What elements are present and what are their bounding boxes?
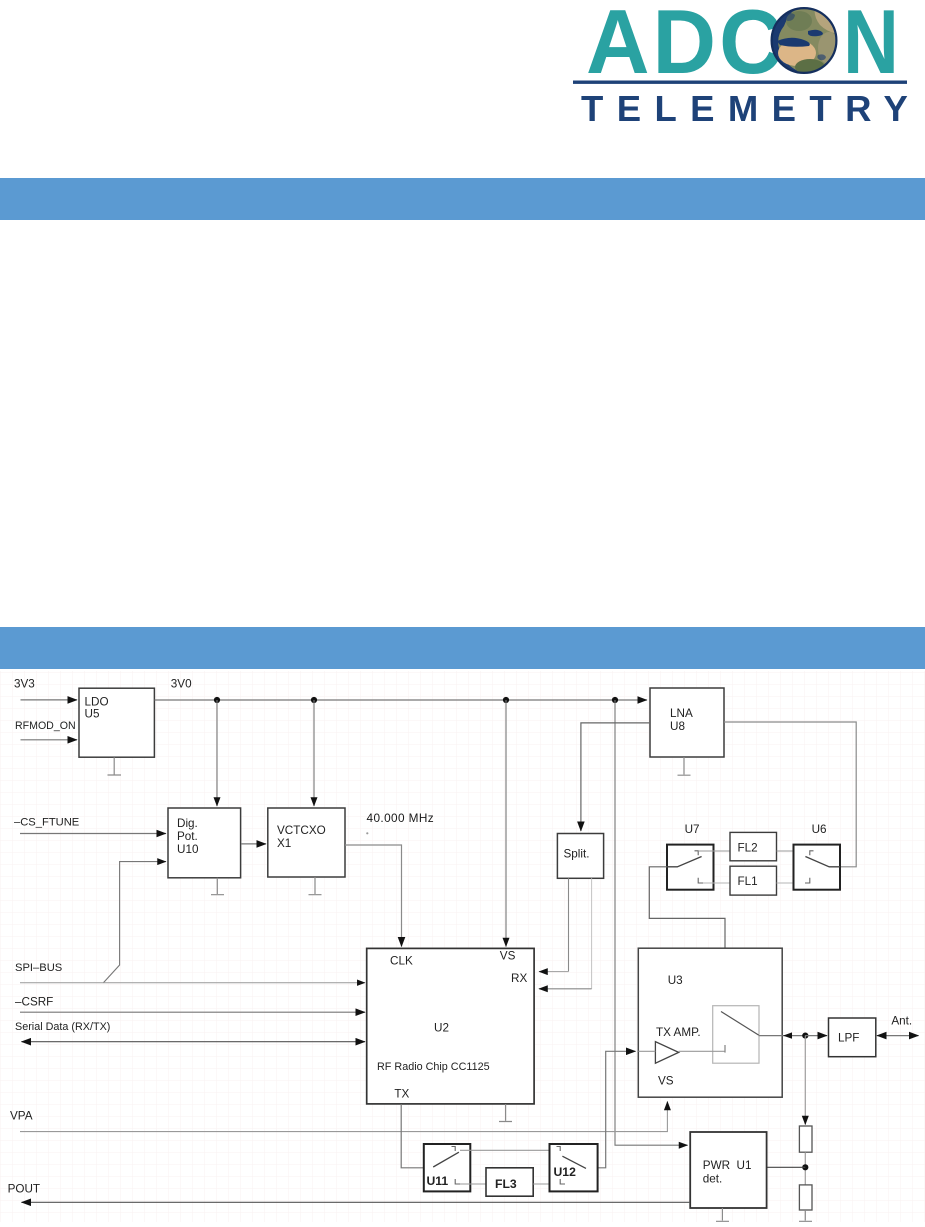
svg-text:FL3: FL3 — [495, 1177, 517, 1191]
svg-text:LPF: LPF — [838, 1032, 859, 1045]
svg-text:U1: U1 — [737, 1159, 752, 1172]
wire CSRF into U2 — [20, 1011, 365, 1013]
wire R1 to R2 — [804, 1152, 806, 1185]
resistor R2 — [799, 1185, 812, 1210]
filter LPF box — [829, 1018, 876, 1057]
crystal X1 box — [268, 808, 345, 877]
wire CS_FTUNE into U10 — [20, 833, 166, 835]
splitter box — [557, 834, 603, 879]
ground under X1 — [309, 877, 322, 895]
ground under LNA — [678, 757, 691, 775]
svg-text:SPI–BUS: SPI–BUS — [15, 962, 62, 974]
wire U3 switch to antenna node — [759, 1035, 806, 1037]
wire PWR det to divider node — [767, 1166, 806, 1168]
svg-text:RF Radio Chip CC1125: RF Radio Chip CC1125 — [377, 1061, 490, 1073]
svg-text:det.: det. — [703, 1173, 723, 1186]
logo underline — [573, 81, 907, 84]
svg-text:VS: VS — [500, 950, 516, 963]
junction dot — [503, 697, 509, 703]
wire FL2 to U6 — [777, 850, 811, 852]
wire rail down and into PWR det U1 — [615, 700, 688, 1145]
junction dot antenna node — [802, 1033, 808, 1039]
svg-text:CLK: CLK — [390, 955, 413, 968]
svg-text:U6: U6 — [812, 823, 827, 836]
svg-text:VPA: VPA — [10, 1110, 33, 1123]
wire SPI-BUS into U2 — [20, 982, 365, 984]
svg-text:Split.: Split. — [564, 848, 590, 861]
wire U11 bypass to U12 — [460, 1149, 565, 1151]
wire splitter out A to U2 RX — [568, 878, 570, 971]
switch U7 box — [667, 845, 714, 890]
svg-text:3V0: 3V0 — [171, 678, 192, 691]
wire U7 top contact to FL2 — [698, 850, 730, 852]
resistor R1 — [799, 1126, 812, 1152]
wire U10 to X1 — [241, 843, 266, 845]
svg-text:U11: U11 — [427, 1174, 449, 1188]
junction dot — [214, 697, 220, 703]
wire LNA input from splitter feed — [581, 723, 650, 831]
switch U11 box — [424, 1144, 471, 1191]
TX amp triangle — [655, 1042, 678, 1064]
wire FL3 to U12 — [533, 1183, 561, 1185]
amplifier U3 box — [638, 948, 782, 1097]
svg-text:U3: U3 — [668, 974, 683, 987]
svg-text:U8: U8 — [670, 720, 685, 733]
svg-text:TX: TX — [394, 1088, 409, 1101]
wire node down to R1 — [804, 1036, 806, 1125]
svg-text:TELEMETRY: TELEMETRY — [581, 88, 921, 129]
ground under U1 — [716, 1208, 729, 1221]
wire SPI bus tap up into U10 — [103, 862, 166, 983]
wire amp output to switch — [679, 1050, 725, 1052]
svg-text:VS: VS — [658, 1075, 674, 1088]
wire U12 common up into U3 amp input — [586, 1051, 636, 1168]
junction dot — [612, 697, 618, 703]
power detector U1 box — [690, 1132, 766, 1208]
svg-text:LNA: LNA — [670, 707, 693, 720]
svg-text:RX: RX — [511, 972, 527, 985]
switch box inside U3 — [713, 1006, 759, 1063]
ground under R2 — [799, 1210, 812, 1221]
wire rail down to X1 — [313, 700, 315, 806]
wire U7 common down to U3 switch — [649, 867, 725, 1011]
wire FL1 to U6 — [777, 882, 806, 884]
filter FL2 box — [730, 832, 777, 860]
wire rail down to U2 VS pin — [505, 700, 507, 947]
svg-text:Serial Data (RX/TX): Serial Data (RX/TX) — [15, 1021, 110, 1033]
junction dot — [311, 697, 317, 703]
svg-text:Ant.: Ant. — [891, 1015, 912, 1028]
svg-text:N: N — [843, 0, 899, 92]
wire 3V3 into LDO — [21, 699, 78, 701]
wire serial data bidirectional — [22, 1041, 366, 1043]
svg-text:3V3: 3V3 — [14, 678, 35, 691]
blue banner 1 — [0, 178, 925, 220]
arrow into U3 right edge — [783, 1032, 792, 1038]
wire U7 bottom contact to FL1 — [703, 882, 730, 884]
switch U12 box — [550, 1144, 598, 1191]
svg-text:40.000 MHz: 40.000 MHz — [367, 811, 435, 825]
stray dot mark — [366, 832, 368, 834]
svg-text:U7: U7 — [685, 823, 700, 836]
blue banner 2 — [0, 627, 925, 669]
wire VPA to U3 VS pin — [20, 1102, 667, 1132]
svg-text:X1: X1 — [277, 837, 291, 850]
wire U2 TX down to U11 — [401, 1104, 433, 1168]
radio chip U2 box — [367, 948, 534, 1104]
svg-text:FL1: FL1 — [738, 875, 758, 888]
svg-text:FL2: FL2 — [738, 842, 758, 855]
svg-text:TX AMP.: TX AMP. — [656, 1026, 701, 1039]
wire node to LPF — [805, 1035, 827, 1037]
wire amp input inside U3 — [638, 1050, 655, 1052]
wire X1 clock out to U2 CLK — [345, 845, 402, 947]
wire POUT from PWR det — [22, 1201, 691, 1203]
wire LPF to antenna — [877, 1035, 919, 1037]
svg-text:PWR: PWR — [703, 1159, 730, 1172]
svg-text:U5: U5 — [85, 708, 100, 721]
svg-text:U10: U10 — [177, 843, 199, 856]
ground under U2 — [499, 1104, 512, 1122]
junction dot divider — [802, 1164, 808, 1170]
svg-text:VCTCXO: VCTCXO — [277, 824, 326, 837]
svg-text:–CS_FTUNE: –CS_FTUNE — [14, 817, 79, 829]
wire splitter out B to U2 RX — [591, 878, 593, 989]
LNA U8 box — [650, 688, 724, 757]
wire RFMOD_ON into LDO — [21, 739, 78, 741]
regulator U5 box — [79, 688, 154, 757]
wire 3V0 rail to LNA — [155, 699, 648, 701]
wire rail down to U10 — [216, 700, 218, 806]
svg-text:–CSRF: –CSRF — [15, 996, 53, 1009]
faint grid of schematic scan — [0, 671, 925, 1222]
ground under U10 — [211, 878, 224, 895]
ground under U5 — [108, 757, 122, 775]
wire U11 to FL3 — [460, 1183, 486, 1185]
filter FL1 box — [730, 866, 777, 895]
svg-text:RFMOD_ON: RFMOD_ON — [15, 720, 76, 732]
svg-text:ADC: ADC — [586, 0, 786, 92]
svg-text:U12: U12 — [554, 1165, 577, 1179]
filter FL3 box — [486, 1168, 533, 1196]
svg-text:Dig.: Dig. — [177, 817, 198, 830]
globe O of logo — [771, 6, 840, 75]
svg-text:Pot.: Pot. — [177, 830, 198, 843]
wire LNA output to U6 common — [724, 722, 856, 867]
switch U6 box — [794, 845, 841, 890]
digital pot U10 box — [168, 808, 241, 878]
svg-text:POUT: POUT — [8, 1183, 40, 1196]
svg-text:U2: U2 — [434, 1022, 449, 1035]
